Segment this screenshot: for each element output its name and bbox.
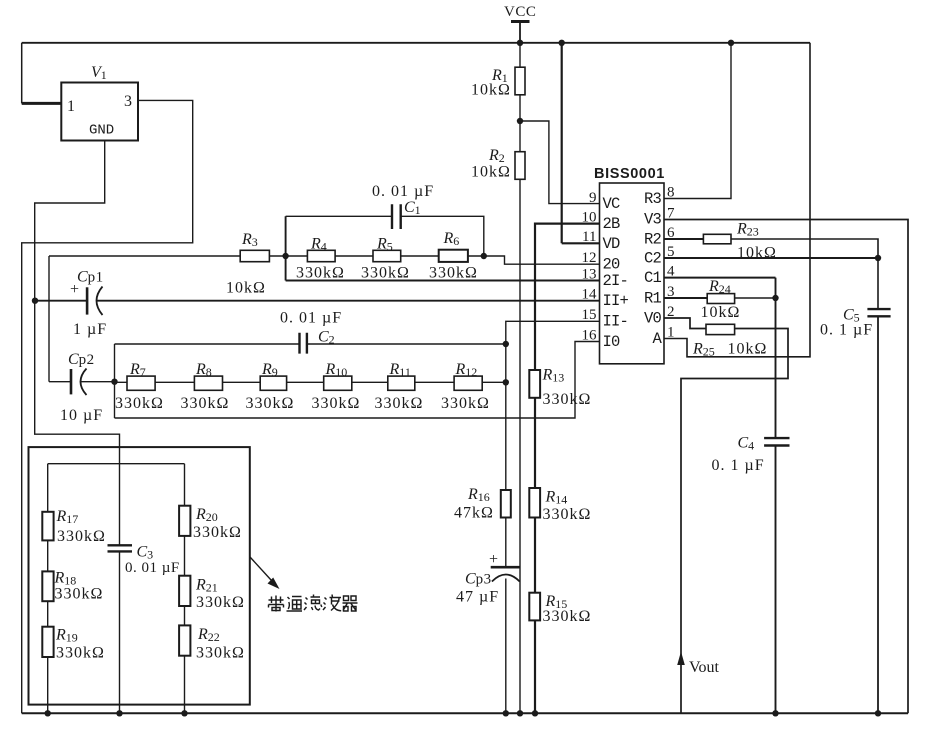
svg-text:8: 8 <box>667 185 675 201</box>
svg-text:330kΩ: 330kΩ <box>441 395 490 412</box>
svg-text:1: 1 <box>667 325 675 341</box>
svg-text:10kΩ: 10kΩ <box>226 280 266 297</box>
svg-text:14: 14 <box>582 287 598 303</box>
svg-text:330kΩ: 330kΩ <box>57 528 106 545</box>
svg-text:10kΩ: 10kΩ <box>471 164 511 181</box>
svg-text:330kΩ: 330kΩ <box>361 265 410 282</box>
svg-text:V3: V3 <box>644 211 662 229</box>
svg-text:7: 7 <box>667 206 675 222</box>
svg-text:R1: R1 <box>644 290 662 308</box>
svg-text:0. 1 µF: 0. 1 µF <box>712 457 765 474</box>
svg-text:R2: R2 <box>644 231 662 249</box>
svg-text:16: 16 <box>582 328 598 344</box>
svg-text:330kΩ: 330kΩ <box>296 265 345 282</box>
svg-text:330kΩ: 330kΩ <box>543 391 592 408</box>
svg-text:47 µF: 47 µF <box>456 589 499 606</box>
svg-text:VCC: VCC <box>504 4 536 20</box>
svg-text:330kΩ: 330kΩ <box>115 395 164 412</box>
svg-text:I0: I0 <box>603 333 621 351</box>
svg-text:Vout: Vout <box>689 659 719 676</box>
svg-text:10kΩ: 10kΩ <box>737 245 777 262</box>
svg-text:330kΩ: 330kΩ <box>181 395 230 412</box>
svg-text:330kΩ: 330kΩ <box>375 395 424 412</box>
svg-text:10kΩ: 10kΩ <box>728 341 768 358</box>
svg-text:10 µF: 10 µF <box>60 407 103 424</box>
svg-text:330kΩ: 330kΩ <box>193 524 242 541</box>
svg-text:13: 13 <box>582 267 597 283</box>
svg-text:330kΩ: 330kΩ <box>246 395 295 412</box>
svg-text:2I-: 2I- <box>603 272 629 290</box>
svg-text:330kΩ: 330kΩ <box>196 594 245 611</box>
svg-text:2B: 2B <box>603 215 621 233</box>
svg-text:10: 10 <box>582 210 597 226</box>
svg-text:20: 20 <box>603 256 621 274</box>
svg-text:9: 9 <box>589 190 597 206</box>
svg-text:BISS0001: BISS0001 <box>594 166 665 182</box>
svg-text:II+: II+ <box>603 292 629 310</box>
svg-text:0. 01 µF: 0. 01 µF <box>280 310 342 327</box>
svg-text:0. 1 µF: 0. 1 µF <box>820 322 873 339</box>
svg-text:330kΩ: 330kΩ <box>543 608 592 625</box>
svg-text:+: + <box>489 551 498 568</box>
svg-text:47kΩ: 47kΩ <box>454 505 494 522</box>
svg-text:2: 2 <box>667 304 675 320</box>
svg-text:15: 15 <box>582 307 597 323</box>
svg-text:330kΩ: 330kΩ <box>196 645 245 662</box>
svg-text:V0: V0 <box>644 310 662 328</box>
svg-text:A: A <box>652 330 662 348</box>
svg-text:0. 01 µF: 0. 01 µF <box>125 560 180 576</box>
svg-text:C1: C1 <box>644 269 662 287</box>
svg-text:6: 6 <box>667 225 675 241</box>
svg-text:4: 4 <box>667 264 675 280</box>
svg-text:3: 3 <box>667 284 675 300</box>
svg-text:1: 1 <box>67 98 75 115</box>
svg-text:1 µF: 1 µF <box>73 321 107 338</box>
svg-text:II-: II- <box>603 313 629 331</box>
svg-text:330kΩ: 330kΩ <box>55 586 104 603</box>
svg-text:+: + <box>70 281 79 298</box>
svg-text:Cp2: Cp2 <box>68 351 95 368</box>
svg-text:11: 11 <box>582 229 596 245</box>
svg-text:VD: VD <box>603 235 621 253</box>
svg-text:330kΩ: 330kΩ <box>543 506 592 523</box>
svg-text:330kΩ: 330kΩ <box>429 265 478 282</box>
svg-text:10kΩ: 10kΩ <box>471 82 511 99</box>
svg-text:330kΩ: 330kΩ <box>312 395 361 412</box>
svg-text:Cp3: Cp3 <box>465 571 492 588</box>
svg-text:12: 12 <box>582 250 597 266</box>
svg-text:C2: C2 <box>644 250 662 268</box>
svg-text:Cp1: Cp1 <box>77 269 104 286</box>
svg-text:GND: GND <box>89 123 114 139</box>
svg-text:5: 5 <box>667 244 675 260</box>
svg-text:VC: VC <box>603 195 621 213</box>
svg-text:0. 01 µF: 0. 01 µF <box>372 183 434 200</box>
svg-text:R3: R3 <box>644 190 662 208</box>
svg-text:10kΩ: 10kΩ <box>701 304 741 321</box>
svg-text:330kΩ: 330kΩ <box>56 645 105 662</box>
svg-text:3: 3 <box>124 93 132 110</box>
